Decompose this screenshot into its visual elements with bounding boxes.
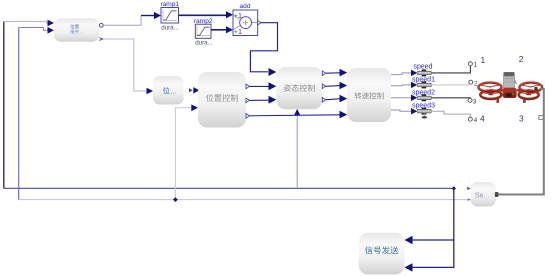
arrow into speed source 1 — [411, 70, 417, 76]
small port mark on gray wire — [539, 116, 544, 120]
add output marker — [258, 20, 261, 25]
ramp1 R1 — [161, 8, 179, 24]
front-left prop guard — [480, 90, 501, 99]
setpoint output marker — [189, 88, 193, 92]
adder U1 — [233, 10, 258, 36]
wires position control to attitude control — [249, 86, 340, 115]
arrow into speed source 3 — [411, 95, 417, 101]
battery box on top — [504, 72, 515, 88]
svg-text:1: 1 — [481, 55, 486, 65]
position control block — [198, 72, 246, 128]
arrow up into attitude control — [294, 109, 301, 116]
flange port 1 — [468, 62, 472, 66]
arrow into attitude input 2 — [269, 82, 277, 90]
svg-text:speed: speed — [414, 64, 433, 71]
wires speed control to speed sources — [391, 73, 412, 111]
wire from junction down to signal-send block — [411, 188, 454, 267]
command block lower-right port mark — [99, 38, 103, 41]
wire add to attitude control — [250, 23, 277, 72]
rear-left prop guard — [479, 83, 502, 92]
command block (top-left) — [54, 18, 99, 42]
wire speed1 to flange 1 — [431, 66, 470, 73]
wires attitude to speed control — [326, 73, 340, 100]
wire speed4 to flange 4 — [431, 111, 470, 117]
svg-text:1: 1 — [474, 62, 478, 69]
rear rotor blades — [484, 85, 496, 88]
svg-text:2: 2 — [519, 54, 524, 64]
svg-text:Se...: Se... — [475, 193, 489, 200]
wire W3 command output to ramp1 — [103, 16, 155, 26]
flange port 4 — [468, 117, 472, 121]
svg-text:3: 3 — [519, 113, 524, 123]
wire W1 feedback to command block input 1 — [4, 22, 454, 189]
position control output markers — [246, 84, 249, 89]
svg-text:dura...: dura... — [161, 24, 179, 31]
svg-text:4: 4 — [474, 117, 478, 124]
attitude control block — [276, 67, 322, 109]
arrow into speed-control input 4 — [340, 111, 348, 119]
arrow into add input 1 — [226, 11, 233, 18]
junction dot on W2 — [173, 197, 178, 202]
speed source 1 — [417, 69, 431, 76]
arrow into speed source 4 — [411, 108, 417, 114]
rear-right prop guard — [520, 83, 543, 92]
wire speed3 to flange 3 — [431, 97, 470, 100]
signal send block — [359, 233, 405, 275]
legs — [496, 97, 499, 103]
speed source 3 — [417, 94, 431, 101]
svg-text:....: .... — [80, 29, 85, 34]
arrow into speed-control input 2 — [340, 82, 348, 90]
speed source 4 — [417, 108, 431, 115]
svg-text:4: 4 — [480, 113, 485, 123]
wire ramp1 to add — [179, 14, 227, 16]
speed source 2 — [417, 81, 431, 88]
arrow into speed-control input 1 — [340, 69, 348, 77]
svg-text:dura...: dura... — [195, 39, 213, 46]
svg-text:speed2: speed2 — [412, 90, 435, 97]
ramp2 R2 — [195, 24, 211, 38]
wire to attitude-control bottom input — [296, 113, 298, 189]
wire speed2 to flange 2 — [431, 83, 469, 86]
arrow into attitude input 1 — [269, 68, 277, 76]
wire W2 feedback to command block input 2 and pos-control input 2 — [19, 28, 471, 200]
right connector nub — [534, 87, 537, 91]
arrow into setpoint block — [147, 88, 154, 95]
arrow into speed-control input 3 — [340, 95, 348, 103]
sensor left port marks — [467, 187, 470, 190]
wire branch to position-control input 2 — [175, 108, 192, 200]
ring spokes — [481, 85, 540, 94]
sensor block connector nub right — [495, 192, 499, 197]
thick gray wire drone to sensor block — [496, 89, 544, 195]
front-right prop guard — [519, 90, 539, 99]
svg-text:speed3: speed3 — [412, 103, 435, 110]
arrow into signal-send input 1 — [405, 236, 413, 244]
arms — [496, 88, 504, 93]
front rotor hubs — [488, 93, 493, 95]
wire W4 command lower port to setpoint block — [103, 39, 147, 91]
speed control block — [347, 68, 391, 122]
command block input arrow 2 — [48, 27, 55, 34]
junction dot near Se block — [452, 186, 456, 190]
svg-text:...: ... — [170, 87, 176, 96]
wire ramp2 to add — [211, 29, 227, 31]
arrow into position control input 2 — [191, 104, 198, 111]
quadcopter drone — [479, 72, 543, 103]
flange port 2 — [469, 80, 473, 84]
svg-text:+1: +1 — [234, 27, 242, 36]
flange port 3 — [468, 98, 472, 102]
arrow into add input 2 — [226, 26, 233, 33]
attitude output markers — [322, 71, 325, 76]
support of speed source 4 — [422, 113, 427, 119]
command block output circle port — [99, 23, 103, 27]
arrow into attitude input 3 — [269, 96, 277, 104]
arrow into position control input 1 — [193, 87, 199, 93]
arrow into speed source 2 — [411, 82, 417, 88]
arrow into ramp1 — [154, 12, 161, 19]
sensor block Se... — [471, 182, 497, 207]
svg-text:speed1: speed1 — [412, 77, 435, 84]
svg-text:add: add — [239, 3, 250, 10]
body — [503, 88, 517, 98]
svg-text:+1: +1 — [234, 11, 242, 20]
command block input arrow 1 — [48, 20, 55, 27]
svg-text:ramp2: ramp2 — [194, 18, 213, 25]
svg-text:3: 3 — [473, 99, 477, 106]
svg-text:ramp1: ramp1 — [160, 1, 179, 8]
arrow into signal-send input 2 — [405, 263, 413, 271]
setpoint block (位...) — [153, 76, 184, 105]
